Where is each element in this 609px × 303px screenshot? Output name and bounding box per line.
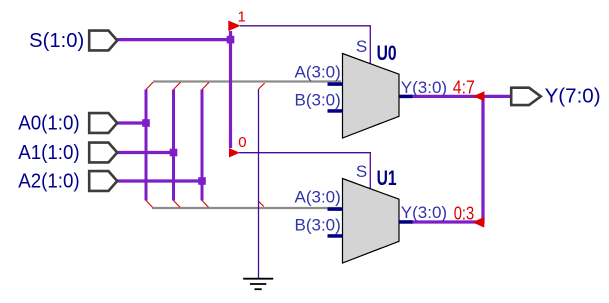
svg-text:A2(1:0): A2(1:0) (18, 170, 79, 192)
svg-text:0:3: 0:3 (454, 203, 475, 223)
svg-text:0: 0 (238, 134, 246, 151)
svg-text:U0: U0 (377, 42, 397, 65)
svg-text:B(3:0): B(3:0) (295, 91, 341, 110)
svg-text:S: S (356, 37, 367, 56)
svg-text:U1: U1 (377, 167, 397, 190)
svg-text:Y(3:0): Y(3:0) (401, 203, 447, 222)
svg-text:A1(1:0): A1(1:0) (18, 142, 79, 164)
svg-text:S: S (356, 162, 367, 181)
svg-text:1: 1 (238, 9, 246, 26)
svg-text:A(3:0): A(3:0) (295, 63, 341, 82)
svg-text:A(3:0): A(3:0) (295, 188, 341, 207)
svg-text:Y(3:0): Y(3:0) (401, 78, 447, 97)
svg-text:B(3:0): B(3:0) (295, 216, 341, 235)
svg-text:Y(7:0): Y(7:0) (545, 86, 601, 108)
svg-text:S(1:0): S(1:0) (29, 30, 84, 52)
svg-text:4:7: 4:7 (453, 78, 475, 98)
svg-text:A0(1:0): A0(1:0) (18, 112, 79, 134)
